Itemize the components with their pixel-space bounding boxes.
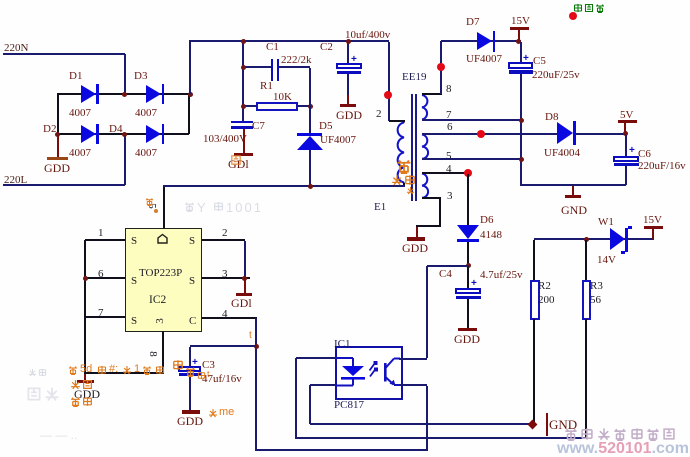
wire GND rail (cathode to GND label) [310, 423, 532, 425]
secondary top winding (pins 8-7) [422, 95, 427, 120]
watermark orange band [68, 365, 78, 375]
wire bridge top row [57, 93, 190, 95]
wire opto cathode in [310, 384, 335, 386]
diode D4 [146, 125, 161, 143]
resistor R2 [533, 240, 535, 280]
wire C5 bottom vertical [520, 74, 522, 186]
capacitor C4 [467, 266, 469, 288]
node red dot pin6 [477, 130, 485, 138]
wire C1/R1/C7 branch vertical [242, 42, 244, 121]
wire opto collector out [399, 358, 427, 360]
wire pin8 lead [422, 93, 442, 95]
LED cathode bar [341, 377, 365, 380]
ground GDD under C4 [458, 328, 477, 332]
pin label 7 [446, 109, 452, 121]
diode D6 [467, 174, 469, 225]
wire IC pin1 [85, 239, 125, 241]
wire opto anode vertical [295, 358, 297, 438]
junction top rail / branch [241, 39, 246, 44]
capacitor C3 [189, 347, 191, 366]
wire pin6 lead to D8 [422, 133, 558, 135]
wire pin3 down [439, 198, 441, 226]
wire bus to pin8 stub [84, 372, 164, 374]
junction bridge top-left [122, 92, 127, 97]
node red dot pin8 vertical [437, 63, 445, 71]
opto internals [334, 345, 402, 397]
wire bridge left vertical [57, 94, 59, 134]
wire pin3 horizontal [416, 225, 441, 227]
wire 220N rail [3, 53, 125, 55]
wire feedback rail (anode to R3) [295, 437, 587, 439]
ground GDD under transformer [416, 227, 418, 237]
primary winding [398, 123, 404, 183]
node 220L label [4, 174, 27, 186]
junction pin5/C5 line [519, 157, 524, 162]
ground GDD at pin3 [244, 279, 246, 293]
wire xfmr pin2 lead [389, 120, 405, 122]
wire opto emitter out [399, 384, 427, 386]
pin 5 label (rotated) [146, 203, 158, 209]
junction D5/rail [308, 184, 313, 189]
wire pin4 vertical down [255, 318, 257, 451]
pin label 8 [446, 83, 452, 95]
wire IC pin4 [202, 317, 257, 319]
diode D2 [81, 125, 96, 143]
secondary bottom winding (pins 4-3) [422, 174, 428, 198]
wire D8 to 5V node [575, 133, 626, 135]
junction bridge bottom-left [55, 132, 60, 137]
capacitor C2 [347, 42, 349, 63]
junction C1 left [241, 65, 246, 70]
wire GND rail (secondary) [521, 184, 626, 186]
wire bottom return to pin4 line [256, 449, 428, 451]
power flag 15V (W1) [643, 214, 662, 226]
wire pin2 down to pin3 [244, 241, 246, 279]
junction bridge top-right [188, 92, 193, 97]
wire IC pin6 [85, 277, 125, 279]
node 220N label [4, 42, 28, 54]
phototransistor bar [384, 363, 387, 382]
wire IC pin3 [202, 277, 250, 279]
ground GND (secondary) [572, 186, 574, 195]
secondary middle winding (pins 6-5) [422, 135, 428, 159]
capacitor C6 [625, 135, 627, 156]
zener W1 [610, 228, 625, 250]
wire top DC rail [189, 40, 389, 42]
emitter with arrow [386, 377, 394, 385]
wire 220L rail [3, 184, 125, 186]
wire bridge bottom row [57, 133, 189, 135]
wire opto anode in [296, 357, 335, 359]
wire D5 anode to rail [309, 150, 311, 186]
watermark faint center [184, 201, 195, 212]
junction zener/R3 [584, 237, 589, 242]
ground GDD at bus [84, 374, 86, 380]
power flag 5V [620, 109, 633, 121]
wire IC pin8 stub [162, 331, 164, 373]
wire C4 bottom [467, 299, 469, 328]
wire primary bottom rail [163, 185, 405, 187]
capacitor C5 [520, 42, 522, 62]
node 同名端 (dot convention) [573, 3, 583, 13]
wire bridge right vertical [188, 95, 190, 134]
ground GDD under C2 [340, 104, 356, 107]
diode D5 [297, 133, 322, 136]
pin label 6 [447, 121, 453, 133]
watermark orange at transformer [396, 158, 412, 174]
power flag 15V (D7) [511, 15, 530, 27]
wire C1-D5 vertical [309, 68, 311, 133]
diode D1 [81, 85, 96, 103]
wire pin5 lead [422, 158, 521, 160]
diode D3 [146, 85, 161, 103]
junction pin4/C3 [254, 344, 259, 349]
net label GND (bottom) [528, 419, 538, 429]
LED stem [352, 358, 354, 366]
wire D7 row [441, 40, 521, 42]
op-amp U1 : TOP223P IC2 body [125, 228, 202, 332]
node red dot on pin2 vertical [384, 91, 392, 99]
wire pin4 lead [422, 172, 468, 174]
ground GDD under C7 [243, 129, 245, 154]
wire DC+ vertical from bridge to top rail [189, 41, 191, 94]
collector [386, 359, 395, 369]
transformer EE19 core and windings [380, 85, 460, 210]
resistor R3 [585, 240, 587, 280]
pin label 5 [446, 150, 452, 162]
junction pin6/bus [83, 276, 88, 281]
wire bridge bottom node to 220L [124, 134, 126, 185]
wire 220N drop to bridge [124, 54, 126, 94]
wire C4 node to opto collector [427, 265, 468, 267]
IC2 tab symbol [156, 233, 169, 245]
junction C2/top rail [346, 39, 351, 44]
optocoupler IC1 PC817 box [335, 346, 403, 401]
resistor R1 [244, 105, 256, 107]
wire emitter vertical down [426, 386, 428, 450]
LED triangle [342, 366, 364, 376]
node red dot (同名端) [569, 12, 577, 20]
diode D8 [557, 122, 573, 144]
watermark bottom-right site name [564, 427, 578, 441]
junction R1 right / D5 [308, 104, 313, 109]
ground GDD under C3 [182, 410, 200, 414]
junction D6/C4 [466, 263, 471, 268]
core [411, 94, 413, 201]
wire rail to IC pin5 [163, 187, 165, 228]
pin label 2 (xfmr) [376, 108, 382, 120]
wire IC pin2 [202, 239, 245, 241]
junction R1 left [241, 104, 246, 109]
photon arrows [370, 363, 376, 371]
zener W1 row wire [534, 238, 654, 240]
wire C3 bottom [189, 376, 191, 410]
wire pin8 vertical to D7 [440, 41, 442, 94]
wire pin7 lead [422, 119, 521, 121]
wire pin3 lead [422, 197, 441, 199]
pin 8 label (rotated) [147, 351, 159, 357]
node red dot pin4 [464, 169, 472, 177]
junction pin2/pin3 [242, 276, 247, 281]
IC2 pin names [131, 235, 137, 247]
junction bridge bottom-mid [122, 132, 127, 137]
capacitor C1 [244, 66, 271, 68]
wire left bus (pins 1-6-7) [84, 240, 86, 374]
watermark orange near pin5 [145, 197, 154, 206]
diode D7 [477, 32, 492, 50]
wire C3 branch [190, 345, 256, 347]
pin label 3 [447, 190, 453, 202]
ground GDD under D2 [57, 135, 59, 158]
capacitor C7 [231, 121, 253, 124]
wire IC pin7 [85, 316, 125, 318]
watermark orange near C7 ground [230, 154, 242, 166]
wire C6 bottom [625, 166, 627, 185]
junction pin7/C5 [519, 118, 524, 123]
junction 5V node [623, 131, 628, 136]
wire top rail to xfmr pin2 vertical [388, 42, 390, 121]
pin label 4 [446, 163, 452, 175]
wire opto cathode vertical [309, 385, 311, 424]
wire D6 cathode down [467, 242, 469, 267]
IC2 name labels [139, 267, 182, 279]
